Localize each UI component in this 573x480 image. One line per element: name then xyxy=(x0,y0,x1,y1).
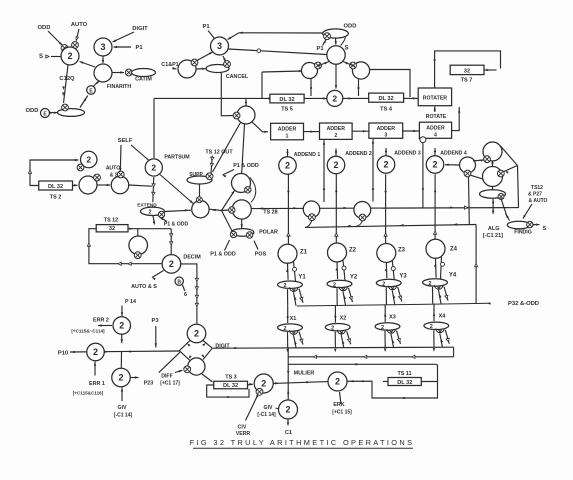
svg-text:1: 1 xyxy=(286,133,289,139)
svg-text:3: 3 xyxy=(100,42,105,52)
svg-text:2: 2 xyxy=(86,155,91,165)
svg-text:X2: X2 xyxy=(340,316,347,322)
svg-text:ADDER: ADDER xyxy=(327,126,346,132)
svg-text:TS 2: TS 2 xyxy=(50,195,62,201)
svg-text:P32 &-ODD: P32 &-ODD xyxy=(508,301,539,307)
svg-text:TS 28: TS 28 xyxy=(263,210,277,216)
svg-text:Z4: Z4 xyxy=(450,247,458,253)
svg-text:& AUTO: & AUTO xyxy=(529,198,548,204)
svg-text:DL 32: DL 32 xyxy=(379,96,394,102)
svg-text:MULIER: MULIER xyxy=(294,371,315,377)
svg-text:[-C1 14]: [-C1 14] xyxy=(257,412,276,418)
svg-text:DECIM: DECIM xyxy=(183,255,201,261)
svg-text:TS 7: TS 7 xyxy=(461,78,473,84)
svg-text:2: 2 xyxy=(428,281,431,287)
svg-text:AUTO & S: AUTO & S xyxy=(131,284,157,290)
svg-text:B: B xyxy=(177,280,181,286)
svg-text:ROTATER: ROTATER xyxy=(423,95,448,101)
svg-text:[-C1 21]: [-C1 21] xyxy=(483,233,503,239)
svg-text:VERR: VERR xyxy=(236,431,251,437)
svg-text:DL 32: DL 32 xyxy=(397,380,412,386)
svg-text:GIV: GIV xyxy=(264,405,273,411)
svg-text:32: 32 xyxy=(464,68,470,74)
svg-text:2: 2 xyxy=(119,321,124,331)
svg-text:2: 2 xyxy=(430,324,433,330)
svg-text:FINDIG: FINDIG xyxy=(514,230,532,236)
svg-text:P1: P1 xyxy=(135,45,143,51)
svg-text:Y3: Y3 xyxy=(399,274,407,280)
svg-text:Z2: Z2 xyxy=(349,248,357,254)
svg-text:2: 2 xyxy=(194,329,199,339)
svg-text:CANCEL: CANCEL xyxy=(226,74,249,80)
svg-text:C1: C1 xyxy=(285,430,292,436)
svg-text:2: 2 xyxy=(67,51,72,61)
svg-text:2: 2 xyxy=(169,259,174,269)
svg-text:2: 2 xyxy=(283,326,286,332)
svg-text:SELF: SELF xyxy=(118,138,133,144)
svg-text:FINARITH: FINARITH xyxy=(107,84,131,90)
svg-text:2: 2 xyxy=(285,405,290,415)
svg-text:ERR 1: ERR 1 xyxy=(89,381,105,387)
svg-text:ALG: ALG xyxy=(488,226,500,232)
svg-text:TS 11: TS 11 xyxy=(397,371,411,377)
svg-text:2: 2 xyxy=(333,160,338,170)
svg-text:ADDER: ADDER xyxy=(426,126,445,132)
svg-text:Z3: Z3 xyxy=(398,248,406,254)
svg-text:POS: POS xyxy=(255,252,267,258)
svg-text:C12Q: C12Q xyxy=(59,76,75,82)
svg-text:2: 2 xyxy=(335,377,340,387)
svg-text:SUPP: SUPP xyxy=(189,172,203,178)
svg-text:FIG 32 TRULY ARITHMETIC: FIG 32 TRULY ARITHMETIC OPERATIONS xyxy=(190,438,415,447)
svg-text:ADDEND 3: ADDEND 3 xyxy=(394,151,421,157)
svg-text:X3: X3 xyxy=(389,315,396,321)
svg-text:P1: P1 xyxy=(202,24,210,30)
svg-text:2: 2 xyxy=(283,283,286,289)
svg-text:DIFF: DIFF xyxy=(161,374,173,380)
svg-text:[+C115&C116]: [+C115&C116] xyxy=(73,391,104,396)
svg-text:C1&P1: C1&P1 xyxy=(161,62,178,68)
svg-text:& P27: & P27 xyxy=(528,192,542,198)
svg-text:CATIM: CATIM xyxy=(135,77,152,83)
svg-text:[+C1 15]: [+C1 15] xyxy=(332,410,352,416)
svg-text:P3: P3 xyxy=(151,318,159,324)
svg-text:TS 3: TS 3 xyxy=(225,375,236,381)
svg-text:2: 2 xyxy=(261,379,266,389)
svg-text:TS 5: TS 5 xyxy=(281,107,293,113)
svg-text:2: 2 xyxy=(382,281,385,287)
svg-text:2: 2 xyxy=(148,210,151,216)
svg-text:P1: P1 xyxy=(316,46,324,52)
svg-text:Y2: Y2 xyxy=(350,275,358,281)
svg-text:ADDEND 4: ADDEND 4 xyxy=(440,151,467,157)
svg-text:P10: P10 xyxy=(58,351,68,357)
svg-text:X4: X4 xyxy=(439,314,447,320)
svg-text:P 14: P 14 xyxy=(125,299,136,305)
svg-text:ERR 2: ERR 2 xyxy=(93,318,109,324)
svg-text:EXTEND: EXTEND xyxy=(137,203,157,209)
svg-text:2: 2 xyxy=(333,282,336,288)
svg-text:2: 2 xyxy=(332,93,337,103)
svg-text:3: 3 xyxy=(384,133,387,139)
svg-text:DL 32: DL 32 xyxy=(48,184,63,190)
svg-text:ODD: ODD xyxy=(26,108,39,114)
svg-text:32: 32 xyxy=(109,226,115,232)
svg-text:DL 32: DL 32 xyxy=(223,383,238,389)
svg-text:2: 2 xyxy=(383,160,388,170)
svg-text:2: 2 xyxy=(381,325,384,331)
svg-text:ROTATE: ROTATE xyxy=(426,114,447,120)
svg-text:TS 4: TS 4 xyxy=(380,107,393,113)
svg-text:2: 2 xyxy=(285,161,290,171)
svg-text:PARTSUM: PARTSUM xyxy=(164,155,189,161)
svg-text:ODD: ODD xyxy=(344,24,357,30)
svg-text:ADDER: ADDER xyxy=(278,127,297,133)
svg-text:[+C115&~C114]: [+C115&~C114] xyxy=(71,329,105,334)
svg-text:2: 2 xyxy=(151,163,156,173)
svg-text:2: 2 xyxy=(331,326,334,332)
svg-text:2: 2 xyxy=(432,160,437,170)
svg-text:P1 & ODD: P1 & ODD xyxy=(164,222,189,228)
svg-text:P1 & ODD: P1 & ODD xyxy=(233,163,259,169)
svg-text:Y4: Y4 xyxy=(449,273,457,279)
svg-text:3: 3 xyxy=(217,41,222,51)
svg-text:P1 & ODD: P1 & ODD xyxy=(210,252,236,258)
svg-text:TS12: TS12 xyxy=(531,185,543,191)
svg-text:CIV: CIV xyxy=(238,425,247,431)
svg-text:ERK: ERK xyxy=(333,402,344,408)
svg-text:S: S xyxy=(39,54,43,60)
svg-text:S: S xyxy=(344,46,348,52)
svg-text:& S: & S xyxy=(110,173,119,179)
svg-text:Z1: Z1 xyxy=(300,250,308,256)
svg-text:AUTO: AUTO xyxy=(71,22,88,28)
svg-text:ADDER: ADDER xyxy=(377,126,396,132)
svg-text:TS 12 OUT: TS 12 OUT xyxy=(205,150,233,156)
svg-text:2: 2 xyxy=(334,133,337,139)
svg-text:2: 2 xyxy=(118,373,123,383)
svg-text:ADDEND 2: ADDEND 2 xyxy=(345,151,372,157)
svg-text:P23: P23 xyxy=(144,381,154,387)
svg-text:DIGIT: DIGIT xyxy=(132,26,148,32)
svg-text:ADDEND 1: ADDEND 1 xyxy=(294,152,321,158)
svg-text:2: 2 xyxy=(93,347,98,357)
svg-text:TS 12: TS 12 xyxy=(104,218,118,224)
svg-text:ODD: ODD xyxy=(38,25,51,31)
svg-text:AUTO: AUTO xyxy=(106,166,121,172)
svg-text:4: 4 xyxy=(434,132,437,138)
svg-text:POLAR: POLAR xyxy=(259,230,278,236)
svg-text:Y1: Y1 xyxy=(298,275,306,281)
svg-text:DL 32: DL 32 xyxy=(279,97,294,103)
svg-text:GIV: GIV xyxy=(118,405,127,411)
svg-text:6: 6 xyxy=(184,292,187,298)
svg-text:S: S xyxy=(543,226,547,232)
svg-text:[+C1 17]: [+C1 17] xyxy=(160,381,180,387)
svg-text:X1: X1 xyxy=(290,316,297,322)
svg-text:[-C1 14]: [-C1 14] xyxy=(114,413,133,419)
